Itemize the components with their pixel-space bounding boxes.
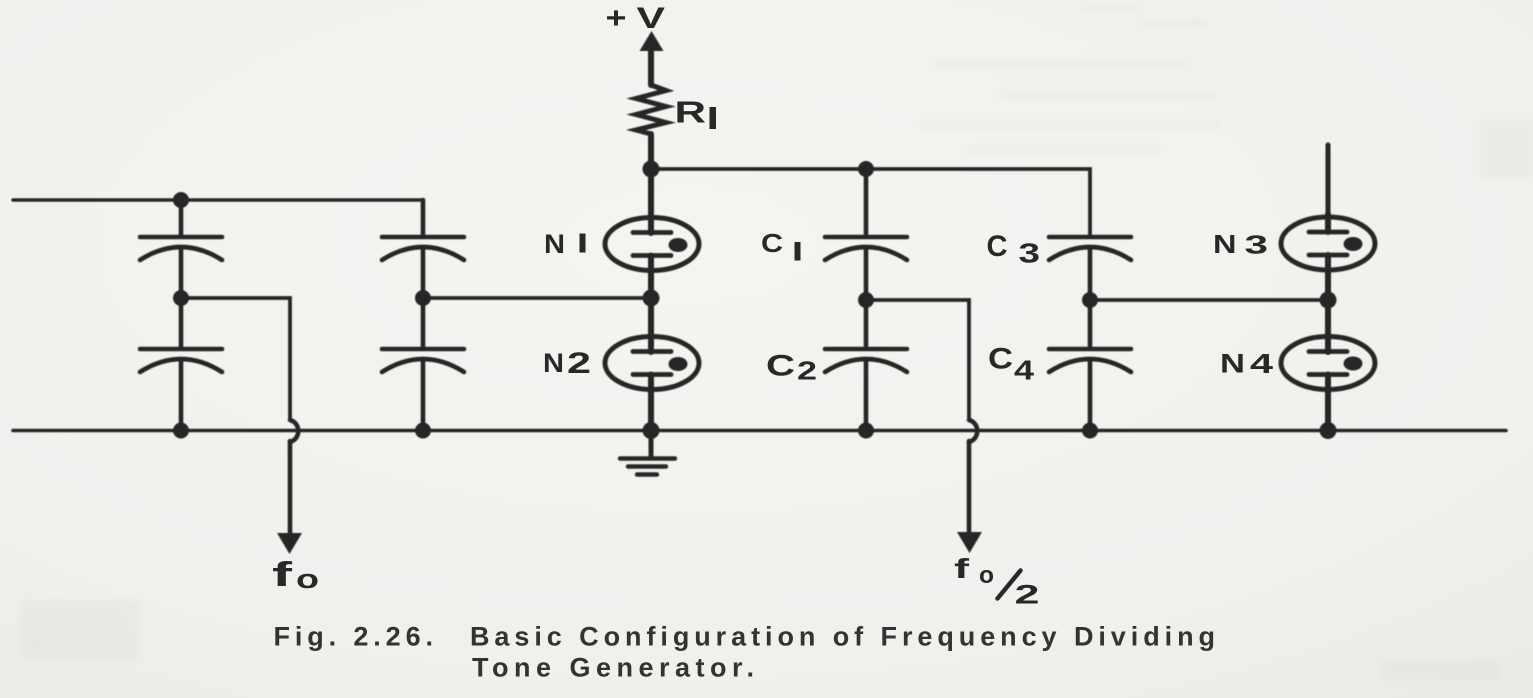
node E: junction dot at (866,300) [858,292,874,308]
wire from node A to f_o takeoff [181,298,290,420]
neon lamp N3 top electrode [1309,230,1347,235]
wire [179,362,184,430]
node: junction dot at (866,169) [858,161,874,177]
svg-text:o: o [979,562,994,589]
svg-text:C: C [987,230,1008,263]
wire: top bus from node C to C3 column (y=169) [651,169,1090,236]
wire from resistor to node C [648,134,654,169]
wire [864,362,869,430]
neon lamp N3 envelope [1281,217,1375,270]
neon lamp N1 top electrode [633,230,671,235]
svg-text:+: + [606,2,627,35]
node: junction dot at (1328,430) [1320,422,1337,439]
capacitor (left column A, upper) lead [179,200,184,236]
node B: junction dot at (423,298) [415,290,431,306]
neon lamp N1 lead (top) [648,169,654,233]
neon lamp N2 gas dot [669,357,688,371]
node: junction dot at (651,430) [643,422,660,439]
arrow head f_o [277,533,302,554]
capacitor C4 plates [1049,347,1131,352]
svg-text:N: N [1213,229,1237,259]
neon lamp N2 lead (bottom) [648,375,654,431]
neon lamp N1 bottom electrode [633,253,671,258]
svg-text:Fig. 2.26.: Fig. 2.26. [274,622,434,652]
node: junction dot at (866,430) [858,423,874,439]
node F: junction dot at (1090,300) [1082,292,1098,308]
svg-text:C: C [766,350,795,383]
svg-text:N: N [1220,349,1245,379]
svg-text:4: 4 [1250,348,1274,379]
wire from node B to N1/N2 midpoint [423,296,650,300]
supply arrow +V [640,31,664,51]
neon lamp N1 lead (bottom) [648,256,654,299]
svg-text:Basic Configuration of Frequen: Basic Configuration of Frequency Dividin… [470,622,1215,652]
neon lamp N2 envelope [605,337,699,390]
wire from +V arrow to resistor [648,47,654,85]
resistor R1 zigzag [636,85,666,134]
capacitor (left column A, lower) lead [179,298,184,348]
wire: top-left input bus (y=200) [13,198,423,202]
node G: junction dot at (1328,300) [1320,292,1337,309]
neon lamp N4 bottom electrode [1309,372,1347,377]
arrow head f_o/2 [957,532,982,553]
svg-text:C: C [988,343,1013,376]
neon lamp N1 envelope [605,218,699,271]
node: junction dot at (1090,430) [1082,423,1098,439]
capacitor C1 plates [825,235,907,240]
wire: f_o drop with crossover hop [290,420,298,442]
svg-text:f: f [272,556,293,594]
svg-text:N: N [543,348,564,378]
neon lamp N2 lead (top) [648,298,654,352]
neon lamp N2 top electrode [633,349,671,354]
wire [421,362,426,430]
wire [1088,362,1093,430]
capacitor C4 lead (top) [1088,300,1093,348]
capacitor C2 lead (top) [864,300,869,348]
svg-text:4: 4 [1014,355,1035,386]
neon lamp N3 top lead [1325,214,1331,232]
svg-text:2: 2 [567,347,591,380]
svg-text:2: 2 [797,356,817,386]
neon lamp N4 gas dot [1344,357,1363,371]
capacitor C3 plates [1049,235,1131,240]
ground [649,430,654,458]
wire [1088,250,1093,300]
neon lamp N3 gas dot [1344,237,1363,251]
neon lamp N2 bottom electrode [633,372,671,377]
wire: top-left bus corner down into column B [421,200,426,236]
wire [864,250,869,300]
neon lamp N1 gas dot [669,238,688,252]
svg-text:3: 3 [1245,230,1269,260]
svg-text:C: C [761,228,783,258]
svg-text:2: 2 [1015,580,1040,610]
neon lamp N4 lead (top) [1325,300,1331,352]
node A: junction dot at (181,298) [173,290,189,306]
neon lamp N3 lead (bottom) [1325,255,1331,300]
node C: junction dot at (651,169) [643,161,660,178]
wire [179,250,184,298]
node: junction dot at (181,200) [173,192,189,208]
wire: ground bus (y=430.5) [13,429,1506,433]
node: junction dot at (181,430) [173,423,189,439]
svg-text:V: V [637,2,666,35]
wire: f_o/2 drop with crossover hop [969,420,977,442]
node D: junction dot at (651,298) [643,290,660,307]
svg-text:o: o [296,564,319,594]
capacitor C1 lead (top) [864,169,869,236]
capacitor (left column B, lower) plates [382,347,464,352]
svg-text:R: R [675,95,707,130]
neon lamp N4 lead (bottom) [1325,375,1331,431]
wire from node F to N3/N4 midpoint [1090,298,1328,302]
neon lamp N4 envelope [1281,337,1375,390]
neon lamp N3 bottom electrode [1309,253,1347,258]
svg-text:f: f [954,553,970,584]
wire: stub above N3 [1326,145,1331,214]
capacitor (left column A, lower) plates [140,347,222,352]
capacitor (left column B, upper) plates [382,235,464,240]
capacitor C2 plates [825,347,907,352]
capacitor (left column B, lower) lead [421,298,426,348]
capacitor (left column A, upper) plates [140,235,222,240]
svg-text:N: N [544,229,565,259]
svg-text:3: 3 [1019,238,1041,269]
wire [421,250,426,298]
neon lamp N4 top electrode [1309,349,1347,354]
node: junction dot at (423,430) [415,423,431,439]
wire from node E to f_o/2 takeoff [866,300,969,420]
